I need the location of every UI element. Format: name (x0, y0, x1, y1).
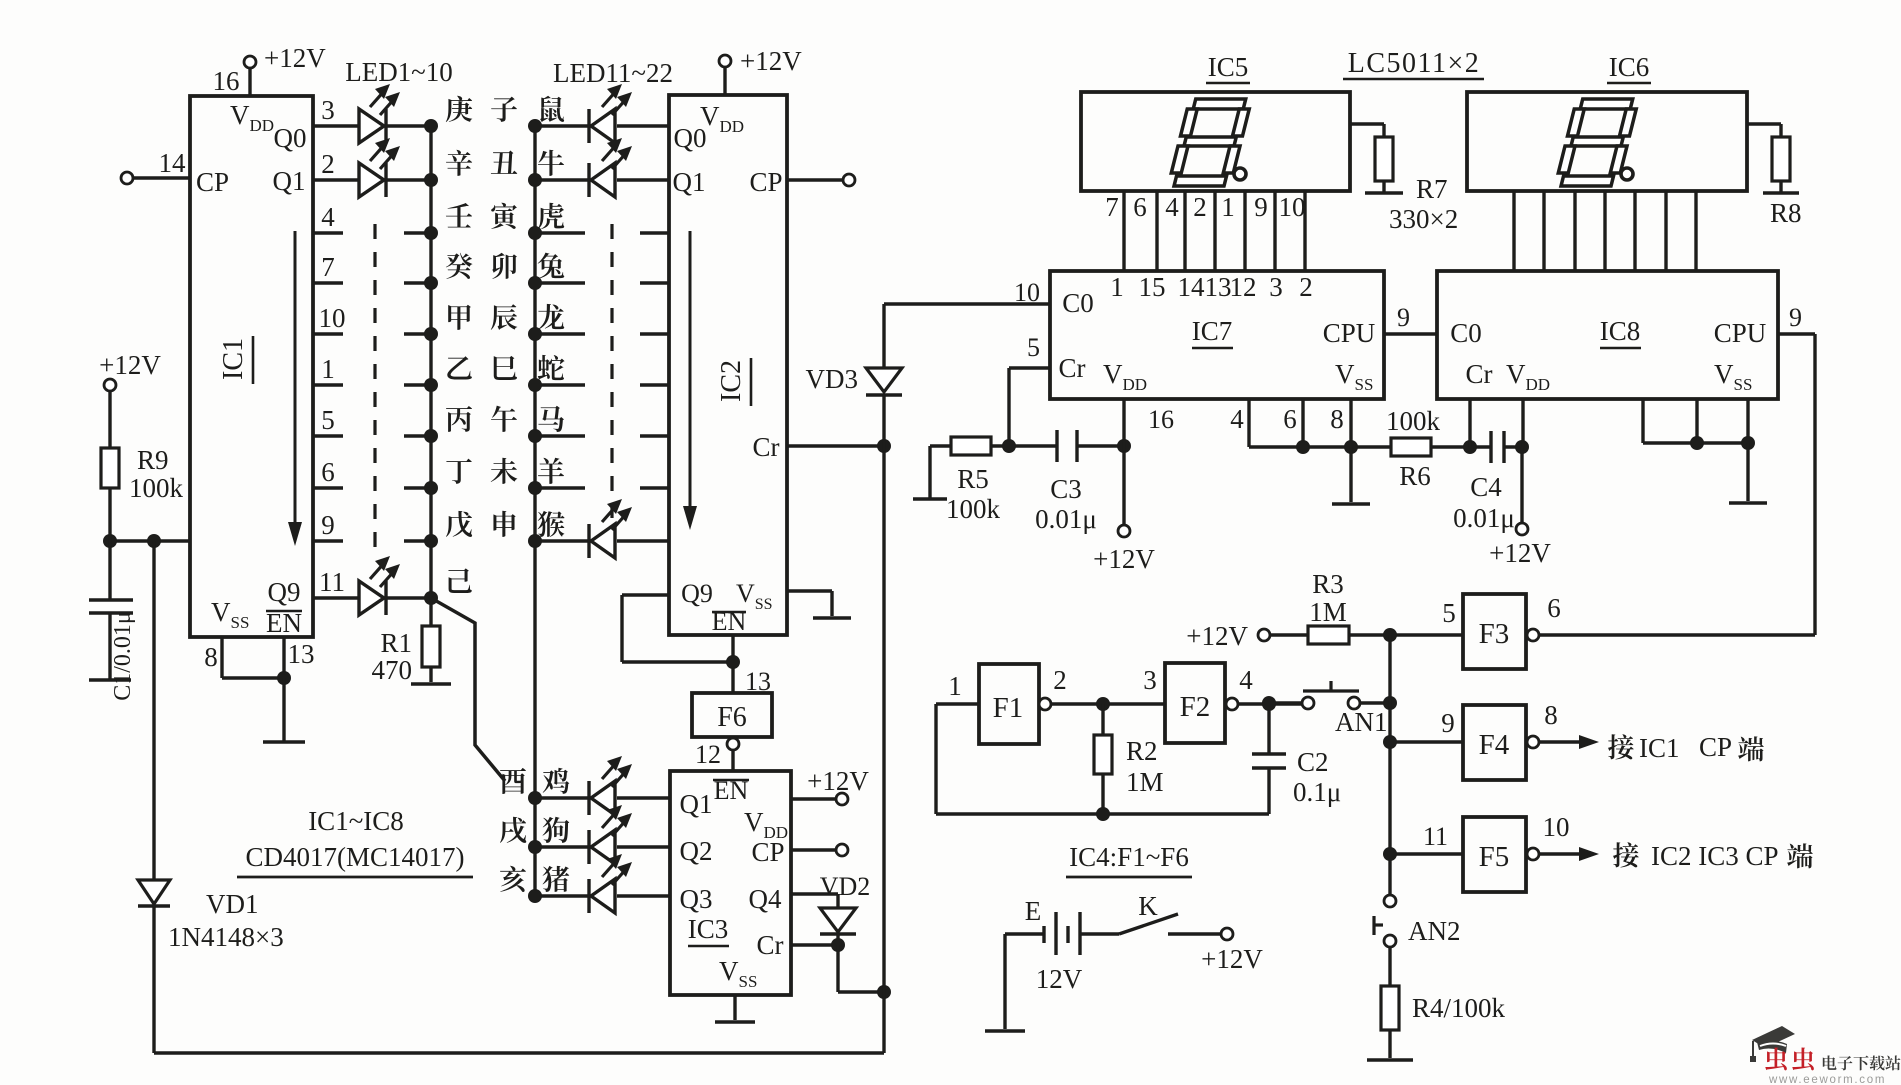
IC2 label (716, 360, 747, 402)
zodiac 狗 (543, 817, 570, 843)
gate F6 (692, 693, 772, 737)
bottom feedback wire (154, 1051, 884, 1054)
+12V supply terminal at IC1 pin 16 (244, 56, 256, 68)
dashed omitted-LED column (left matrix) (373, 224, 376, 552)
+12V terminal at IC3 (791, 797, 836, 800)
display IC6 LC5011 (1467, 92, 1747, 191)
svg-text:7: 7 (1105, 192, 1119, 222)
svg-text:100k: 100k (129, 473, 184, 503)
svg-text:10: 10 (319, 303, 346, 333)
svg-text:12: 12 (695, 740, 721, 769)
pushbutton AN2 (1384, 895, 1396, 907)
link wire from stem bus to lower branch rows (431, 598, 505, 781)
svg-text:Q0: Q0 (674, 123, 707, 153)
LED matrix bus B (533, 126, 536, 896)
heavenly stem 丙 (446, 406, 472, 432)
LED21 (591, 830, 615, 864)
svg-text:100k: 100k (1386, 406, 1441, 436)
capacitor C4 0.01u (1489, 431, 1492, 463)
F2 output pin 4 (1226, 698, 1238, 710)
svg-text:+12V: +12V (1201, 944, 1263, 974)
watermark site name (1823, 1055, 1837, 1069)
long vertical bus from VD3 to IC3 Cr (882, 395, 885, 1053)
svg-text:12: 12 (1230, 272, 1257, 302)
gate F1 (979, 664, 1039, 744)
svg-text:R6: R6 (1399, 461, 1431, 491)
heavenly stem 丁 (446, 459, 472, 484)
zodiac 鼠 (540, 96, 564, 122)
control node vertical wire (1388, 635, 1391, 895)
svg-text:4: 4 (1230, 404, 1244, 434)
svg-text:Cr: Cr (753, 432, 780, 462)
wire from R9 into IC1 left edge (110, 539, 190, 542)
svg-text:CD4017(MC14017): CD4017(MC14017) (245, 842, 464, 872)
svg-text:+12V: +12V (264, 43, 326, 73)
svg-text:5: 5 (321, 405, 335, 435)
svg-text:100k: 100k (946, 494, 1001, 524)
svg-text:Q1: Q1 (673, 167, 706, 197)
svg-text:VD2: VD2 (820, 872, 871, 901)
LED2 (359, 163, 384, 197)
svg-text:Q4: Q4 (749, 884, 782, 914)
svg-text:Q9: Q9 (681, 579, 713, 608)
branch row 戌/狗 wiring (535, 845, 589, 848)
zodiac 猪 (543, 866, 570, 892)
svg-text:Q2: Q2 (680, 836, 713, 866)
C1 value label (rotated) (110, 611, 136, 701)
IC3 CD4017 decade counter (670, 771, 791, 995)
svg-text:6: 6 (1283, 404, 1297, 434)
svg-text:5: 5 (1027, 333, 1040, 362)
svg-text:R4/100k: R4/100k (1412, 993, 1506, 1023)
zodiac 猴 (538, 511, 565, 537)
svg-text:3: 3 (1269, 272, 1283, 302)
zodiac 牛 (538, 150, 564, 176)
7-segment digit in IC6 (1555, 99, 1639, 186)
svg-text:Q3: Q3 (680, 884, 713, 914)
svg-text:1: 1 (321, 354, 335, 384)
IC1 CD4017 decade counter (190, 96, 313, 637)
branch row 申/猴 wiring (535, 539, 589, 542)
svg-text:11: 11 (1423, 822, 1448, 851)
row 10 (甲) wiring (313, 332, 343, 335)
branch row 寅/虎 wiring (535, 231, 585, 234)
ground below R4 (1367, 1058, 1413, 1061)
ground below IC1 (263, 740, 305, 743)
dashed omitted-LED column (right matrix) (610, 224, 613, 518)
svg-text:14: 14 (1178, 272, 1206, 302)
IC1 CP input terminal pin 14 (121, 172, 133, 184)
row 2 (辛) wiring (313, 178, 359, 181)
svg-text:LED1~10: LED1~10 (345, 57, 453, 87)
svg-text:1M: 1M (1309, 597, 1347, 627)
svg-text:Q1: Q1 (680, 789, 713, 819)
LED1 (359, 109, 384, 143)
svg-text:K: K (1138, 891, 1158, 921)
IC7 VDD pin 16 wire to +12V (1122, 399, 1125, 525)
svg-text:+12V: +12V (807, 766, 869, 796)
display IC5 LC5011 (1081, 92, 1350, 191)
svg-text:E: E (1025, 896, 1042, 926)
svg-text:1: 1 (948, 671, 962, 701)
svg-text:10: 10 (1279, 192, 1306, 222)
heavenly stem 壬 (446, 203, 472, 228)
IC8 ground pins (1641, 399, 1644, 443)
svg-text:C0: C0 (1450, 318, 1482, 348)
IC2 internal arrow (689, 231, 692, 514)
earthly branch 卯 (492, 253, 517, 279)
branch row 亥/猪 wiring (535, 894, 589, 897)
svg-text:Cr: Cr (757, 930, 784, 960)
svg-text:1: 1 (1110, 272, 1124, 302)
IC7 Cr pin 5 wire (1007, 368, 1010, 446)
svg-text:1M: 1M (1126, 767, 1164, 797)
heavenly stem 己 (448, 568, 471, 593)
svg-text:9: 9 (1254, 192, 1268, 222)
svg-text:8: 8 (204, 642, 218, 672)
IC8 VDD pin wire to +12V (1521, 399, 1524, 447)
svg-text:2: 2 (1053, 665, 1067, 695)
arrow to IC2 IC3 CP (1539, 852, 1583, 855)
svg-text:6: 6 (1133, 192, 1147, 222)
heavenly stem 辛 (446, 150, 472, 176)
LED20 (591, 781, 615, 815)
svg-text:Cr: Cr (1466, 359, 1493, 389)
IC8 display driver (1437, 271, 1778, 399)
LED matrix bus A (429, 126, 432, 598)
heavenly stem 癸 (446, 253, 473, 279)
svg-text:+12V: +12V (1186, 621, 1248, 651)
zodiac 羊 (538, 458, 564, 484)
svg-text:R8: R8 (1770, 198, 1802, 228)
IC3 CP terminal (791, 848, 836, 851)
svg-text:F3: F3 (1479, 618, 1510, 650)
svg-text:CP: CP (749, 167, 782, 197)
svg-text:15: 15 (1139, 272, 1166, 302)
arrow to IC1 CP (1539, 740, 1583, 743)
resistor R1 470 (429, 598, 432, 626)
zodiac 蛇 (538, 355, 565, 380)
row 7 (癸) wiring (313, 281, 343, 284)
svg-text:6: 6 (1547, 593, 1561, 623)
earthly branch 亥 (500, 866, 526, 892)
svg-text:R3: R3 (1312, 569, 1344, 599)
row 11 (己) wiring (313, 596, 359, 599)
heavenly stem 乙 (447, 356, 472, 379)
svg-text:2: 2 (1193, 192, 1207, 222)
LED12 (591, 163, 615, 197)
svg-text:Q1: Q1 (273, 166, 306, 196)
resistor R6 100k (1391, 438, 1431, 456)
svg-text:CP: CP (1699, 732, 1732, 762)
row 5 (丙) wiring (313, 434, 343, 437)
svg-text:4: 4 (1239, 665, 1253, 695)
svg-text:13: 13 (1205, 272, 1232, 302)
earthly branch 子 (491, 97, 517, 122)
svg-text:C0: C0 (1062, 288, 1094, 318)
IC2 Cr wire to VD3 junction (787, 444, 884, 447)
svg-text:1N4148×3: 1N4148×3 (168, 922, 284, 952)
+12V terminal before R3 (1258, 629, 1270, 641)
svg-text:9: 9 (1397, 303, 1410, 332)
F1 input loop wire (936, 702, 979, 705)
svg-text:8: 8 (1544, 700, 1558, 730)
IC2 Q9 feedback wire to EN/F6 node (622, 593, 669, 596)
IC1 label (218, 338, 249, 380)
svg-text:4: 4 (321, 202, 335, 232)
IC1 pin 8 / pin 13 to ground (220, 637, 223, 678)
svg-text:0.1μ: 0.1μ (1293, 777, 1341, 807)
svg-text:12V: 12V (1036, 964, 1083, 994)
svg-text:LED11~22: LED11~22 (553, 58, 673, 88)
7-segment digit in IC5 (1168, 99, 1252, 186)
svg-text:F2: F2 (1180, 691, 1211, 723)
zodiac 虎 (538, 203, 564, 229)
row 9 (戊) wiring (313, 539, 343, 542)
svg-text:470: 470 (372, 655, 413, 685)
F3 output wire to IC8 CPU (1539, 633, 1815, 636)
IC8 Cr pin wire (1468, 399, 1471, 447)
F1 output pin 2 (1039, 698, 1051, 710)
svg-text:3: 3 (1143, 665, 1157, 695)
branch row 酉/鸡 wiring (535, 796, 589, 799)
svg-text:5: 5 (1442, 598, 1456, 628)
svg-text:+12V: +12V (1093, 544, 1155, 574)
svg-text:2: 2 (321, 149, 335, 179)
svg-text:AN1: AN1 (1335, 707, 1388, 737)
svg-text:F4: F4 (1479, 729, 1510, 761)
svg-text:CPU: CPU (1323, 318, 1376, 348)
svg-text:9: 9 (321, 510, 335, 540)
branch row 巳/蛇 wiring (535, 383, 585, 386)
resistor R5 100k (913, 497, 947, 500)
svg-text:R5: R5 (957, 464, 989, 494)
svg-text:LC5011×2: LC5011×2 (1348, 48, 1481, 79)
diode VD2 (791, 892, 838, 895)
svg-text:F5: F5 (1479, 841, 1510, 873)
branch row 午/马 wiring (535, 434, 585, 437)
IC1 internal arrow (294, 231, 297, 530)
svg-text:10: 10 (1014, 278, 1040, 307)
svg-text:3: 3 (321, 95, 335, 125)
wire F6 output to IC3 EN (731, 750, 734, 771)
LED10 (359, 581, 384, 615)
IC7 pins 4 6 8 wiring (1247, 399, 1250, 447)
svg-text:C4: C4 (1470, 472, 1502, 502)
zodiac 兔 (538, 253, 564, 279)
svg-text:4: 4 (1165, 192, 1179, 222)
gate F4 (1463, 705, 1526, 780)
branch row 丑/牛 wiring (535, 178, 589, 181)
zodiac 龙 (538, 304, 564, 330)
branch row 卯/兔 wiring (535, 281, 585, 284)
LED19 (591, 524, 615, 558)
resistor R2 1M (1101, 704, 1104, 735)
ground below battery (985, 1029, 1025, 1032)
svg-text:0.01μ: 0.01μ (1035, 504, 1097, 534)
svg-text:10: 10 (1543, 812, 1570, 842)
svg-text:2: 2 (1299, 272, 1313, 302)
svg-text:330×2: 330×2 (1389, 204, 1458, 234)
svg-text:C2: C2 (1297, 747, 1329, 777)
svg-text:VD3: VD3 (806, 364, 859, 394)
earthly branch 寅 (491, 203, 517, 229)
svg-text:EN: EN (266, 608, 302, 638)
IC7 display driver (1050, 271, 1384, 399)
svg-text:www.eeworm.com: www.eeworm.com (1768, 1074, 1886, 1085)
row 6 (丁) wiring (313, 486, 343, 489)
ground below IC7 pin 8 (1349, 447, 1352, 502)
svg-text:R7: R7 (1416, 174, 1448, 204)
svg-text:7: 7 (321, 252, 335, 282)
heavenly stem 庚 (446, 96, 472, 122)
svg-text:IC2 IC3 CP: IC2 IC3 CP (1651, 841, 1779, 871)
IC3 VSS ground (733, 995, 736, 1020)
IC2 CP terminal (787, 178, 843, 181)
LED11 (591, 109, 615, 143)
resistor R7 330 (1350, 122, 1384, 125)
ground below R1 (411, 682, 451, 685)
IC7 CPU pin 9 wire to IC8 C0 (1384, 332, 1437, 335)
svg-text:+12V: +12V (740, 46, 802, 76)
gate F3 (1463, 594, 1526, 669)
svg-text:Q9: Q9 (268, 577, 301, 607)
svg-text:AN2: AN2 (1408, 916, 1461, 946)
gate F2 (1165, 663, 1225, 743)
svg-text:Q0: Q0 (274, 123, 307, 153)
svg-text:IC7: IC7 (1192, 316, 1233, 346)
svg-text:IC8: IC8 (1600, 316, 1641, 346)
IC8 CPU pin 9 wire (1778, 332, 1815, 335)
resistor R4 100k (1381, 986, 1399, 1030)
resistor R9 100k (104, 379, 116, 391)
gate F5 (1463, 817, 1526, 892)
branch row 子/鼠 wiring (535, 124, 589, 127)
earthly branch 丑 (491, 151, 517, 174)
svg-text:13: 13 (288, 639, 315, 669)
branch row 辰/龙 wiring (535, 332, 585, 335)
earthly branch 申 (493, 511, 515, 537)
row 3 (庚) wiring (313, 124, 359, 127)
svg-text:IC1~IC8: IC1~IC8 (308, 806, 404, 836)
svg-text:IC5: IC5 (1208, 52, 1249, 82)
svg-text:CP: CP (196, 167, 229, 197)
svg-text:F6: F6 (717, 702, 747, 733)
watermark chongchong red characters (1765, 1047, 1787, 1070)
svg-text:VD1: VD1 (206, 889, 259, 919)
svg-text:IC6: IC6 (1609, 52, 1650, 82)
svg-text:6: 6 (321, 457, 335, 487)
svg-text:11: 11 (319, 567, 345, 597)
earthly branch 未 (491, 458, 518, 484)
IC5 to IC7 pin wires (1122, 191, 1125, 271)
svg-text:Cr: Cr (1059, 353, 1086, 383)
branch row 未/羊 wiring (535, 486, 585, 489)
IC3 Cr wire (791, 943, 838, 946)
capacitor C1 0.01u (108, 541, 111, 600)
capacitor C3 0.01u (1055, 430, 1058, 462)
heavenly stem 甲 (448, 305, 471, 330)
svg-text:16: 16 (213, 66, 240, 96)
svg-text:IC3: IC3 (688, 914, 729, 944)
ground below C1 (89, 678, 131, 681)
earthly branch 辰 (491, 304, 517, 330)
wire to IC7 C0 pin 10 (884, 302, 1050, 305)
svg-text:R9: R9 (137, 445, 169, 475)
svg-text:14: 14 (159, 148, 187, 178)
+12V supply terminal at IC2 (719, 55, 731, 67)
zodiac 马 (538, 406, 564, 432)
earthly branch 戌 (500, 817, 526, 843)
row 1 (乙) wiring (313, 383, 343, 386)
svg-text:9: 9 (1441, 708, 1455, 738)
capacitor C2 0.1u (1267, 704, 1270, 754)
svg-text:8: 8 (1330, 404, 1344, 434)
svg-text:CP: CP (751, 837, 784, 867)
svg-text:CPU: CPU (1714, 318, 1767, 348)
svg-text:IC1: IC1 (218, 338, 249, 380)
zodiac 鸡 (543, 768, 570, 794)
diode VD1 1N4148 (152, 541, 155, 880)
svg-text:0.01μ: 0.01μ (1453, 503, 1515, 533)
svg-text:IC4:F1~F6: IC4:F1~F6 (1069, 842, 1189, 872)
IC6 to IC8 pin wires (1512, 191, 1515, 271)
diode VD3 (882, 304, 885, 368)
svg-text:+12V: +12V (1489, 538, 1551, 568)
IC2 CD4017 decade counter (669, 95, 787, 635)
svg-text:C3: C3 (1050, 474, 1082, 504)
svg-text:IC2: IC2 (716, 360, 747, 402)
svg-text:9: 9 (1789, 303, 1802, 332)
resistor R3 1M (1270, 633, 1308, 636)
svg-text:F1: F1 (993, 692, 1024, 724)
pushbutton AN1 (1269, 701, 1302, 704)
svg-text:16: 16 (1148, 405, 1174, 434)
IC2 EN pin 13 wire (731, 635, 734, 693)
resistor R8 330 (1747, 122, 1781, 125)
svg-text:+12V: +12V (99, 350, 161, 380)
IC2 VSS ground (787, 589, 832, 592)
earthly branch 酉 (500, 768, 526, 794)
row 4 (壬) wiring (313, 231, 343, 234)
LED22 (591, 879, 615, 913)
svg-text:R2: R2 (1126, 736, 1158, 766)
svg-text:1: 1 (1221, 192, 1235, 222)
svg-text:C1/0.01μ: C1/0.01μ (110, 611, 136, 701)
watermark logo (1750, 1026, 1795, 1062)
earthly branch 午 (491, 406, 517, 432)
heavenly stem 戊 (446, 511, 472, 537)
svg-text:IC1: IC1 (1639, 733, 1680, 763)
earthly branch 巳 (494, 356, 517, 380)
svg-text:R1: R1 (380, 628, 412, 658)
